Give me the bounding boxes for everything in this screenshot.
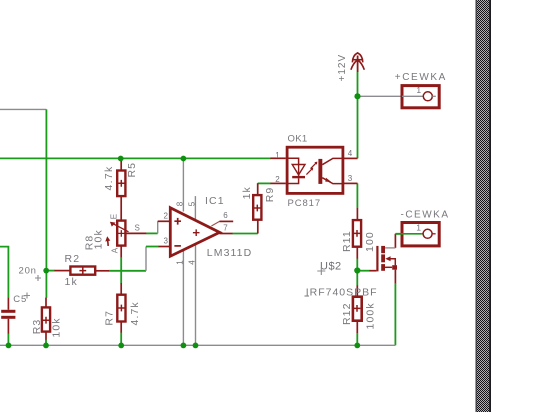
- junction node +12V: [354, 93, 360, 99]
- pin stub R9 bottom: [257, 220, 259, 234]
- wire junction to R3: [45, 271, 47, 298]
- pin stub OK1 pin3: [342, 182, 357, 184]
- origin cross C5: [24, 293, 30, 299]
- wire +12V node to +CEWKA pin (grey): [358, 95, 424, 97]
- wire grey stub top-left: [0, 108, 46, 110]
- svg-text:1: 1: [175, 260, 184, 265]
- wire MOSFET source to rail corner: [394, 283, 396, 345]
- svg-text:S: S: [135, 224, 140, 233]
- svg-text:6: 6: [223, 211, 228, 220]
- svg-text:OK1: OK1: [288, 133, 308, 144]
- junction node rail-C5: [6, 343, 12, 349]
- svg-text:LM311D: LM311D: [207, 247, 253, 259]
- potentiometer R8: [110, 221, 129, 246]
- wire R2 left: [46, 270, 54, 272]
- pin stub R11 top: [356, 208, 358, 220]
- svg-text:R5: R5: [126, 162, 138, 178]
- svg-text:IRF740SPBF: IRF740SPBF: [306, 286, 378, 298]
- resistor R5: [117, 171, 125, 197]
- junction node gate: [354, 267, 360, 273]
- svg-text:10k: 10k: [93, 229, 105, 249]
- resistor R11: [353, 220, 361, 247]
- wire pot bottom to R7: [120, 257, 122, 283]
- svg-text:PC817: PC817: [288, 198, 322, 209]
- wire drain to -CEWKA green over box: [395, 233, 421, 235]
- svg-text:R12: R12: [341, 302, 353, 325]
- wire R11 bottom to gate node: [356, 258, 358, 270]
- wire gate node to MOSFET gate: [357, 270, 369, 272]
- pin stub OK1 pin1: [270, 157, 285, 159]
- wire MOSFET drain to -CEWKA pin: [395, 233, 421, 235]
- wire R7 bottom to rail: [120, 332, 122, 345]
- wire gate node to R12: [356, 271, 358, 286]
- svg-text:R3: R3: [31, 319, 43, 335]
- pin stub R2 right: [96, 270, 110, 272]
- wire wiper riser to pin2 (grey): [157, 221, 159, 233]
- pin IC1 pin6 diagonal: [211, 221, 219, 226]
- wire IC1 pin1 to rail (grey): [182, 250, 184, 345]
- pin stub MOSFET gate: [369, 270, 376, 272]
- pin stub R3 bottom: [45, 332, 47, 340]
- pin stub R2 left: [54, 270, 70, 272]
- supply +12V symbol: [351, 53, 364, 72]
- svg-text:8: 8: [176, 201, 185, 206]
- svg-text:5: 5: [188, 201, 197, 206]
- pin stub OK1 pin2: [270, 182, 285, 184]
- pin stub R11 bottom: [356, 247, 358, 259]
- pin stub R7 top: [120, 283, 122, 295]
- svg-text:R9: R9: [264, 187, 276, 203]
- trimmer adjust arrow of R8: [107, 239, 110, 246]
- wire IC1 pin4 to rail (grey): [195, 244, 197, 345]
- wire left C5 branch: [0, 247, 8, 298]
- wire pin3 horizontal: [146, 246, 159, 248]
- optocoupler OK1 PC817: [287, 147, 343, 193]
- wire riser to pin3 (grey): [145, 247, 147, 271]
- wire IC1 pin8 supply (grey): [182, 159, 184, 212]
- svg-text:2: 2: [275, 175, 280, 184]
- pin stub IC1 pin7: [219, 233, 232, 235]
- svg-text:2: 2: [164, 212, 169, 221]
- pin stub R9 top: [257, 183, 259, 195]
- op-amp U1 comparator IC1 LM311D: [170, 208, 219, 257]
- wire +12V rail: [0, 157, 271, 159]
- resistor R7: [117, 295, 125, 322]
- resistor R3: [42, 307, 50, 331]
- svg-text:1k: 1k: [241, 186, 253, 199]
- svg-text:IC1: IC1: [205, 195, 225, 207]
- junction node rail-R3: [43, 343, 49, 349]
- svg-text:100: 100: [364, 231, 376, 252]
- scrollbar strip: [476, 0, 492, 412]
- junction node rail-R5 top: [118, 156, 124, 162]
- pin stub C5 top: [7, 298, 9, 310]
- origin cross 20n: [35, 275, 41, 281]
- svg-text:10k: 10k: [51, 317, 63, 337]
- connector -CEWKA: [402, 223, 439, 246]
- svg-text:7: 7: [223, 224, 228, 233]
- svg-text:20n: 20n: [19, 265, 37, 276]
- wire R3 bottom to rail: [45, 339, 47, 345]
- wire vertical net from grey corner to R2 junction: [45, 109, 47, 270]
- pin stub IC1 pin6: [220, 220, 234, 222]
- pin stub R3 top: [45, 298, 47, 308]
- svg-text:R2: R2: [65, 253, 81, 265]
- pin stub IC1 pin2: [158, 220, 171, 222]
- junction node rail-IC1 pin8: [181, 156, 187, 162]
- wire IC1 output to R9: [232, 233, 257, 235]
- junction node rail-R12: [354, 343, 360, 349]
- capacitor C5: [1, 310, 15, 319]
- junction node rail-IC1 pin1: [181, 343, 187, 349]
- ground rail (grey): [0, 344, 395, 346]
- wire R12 bottom to rail: [356, 333, 358, 346]
- pin stub R12 top: [356, 285, 358, 296]
- pin stub OK1 pin4: [342, 157, 357, 159]
- pin stub R12 bottom: [356, 321, 358, 333]
- svg-text:4: 4: [348, 149, 353, 158]
- origin cross U$2 value: [305, 295, 310, 297]
- svg-text:E: E: [110, 214, 119, 219]
- resistor R12: [353, 297, 362, 321]
- wire R2 right to IC1 pin3 riser: [109, 270, 146, 272]
- svg-text:4.7k: 4.7k: [129, 301, 141, 325]
- origin cross U$2: [317, 267, 325, 275]
- svg-text:3: 3: [164, 237, 169, 246]
- pin stub MOSFET drain riser: [394, 234, 396, 248]
- svg-text:R11: R11: [341, 230, 353, 252]
- svg-text:3: 3: [348, 174, 353, 183]
- wire OK1 pin4 to +12V node: [357, 96, 359, 158]
- pin stub C5 bottom: [7, 319, 9, 334]
- resistor R2: [70, 267, 95, 275]
- svg-text:100k: 100k: [365, 302, 377, 329]
- pin stub R7 bottom: [120, 322, 122, 333]
- wire R9 top to OK1 pin2: [258, 182, 271, 184]
- svg-text:+12V: +12V: [337, 54, 348, 82]
- svg-text:-CEWKA: -CEWKA: [401, 210, 450, 221]
- pin stub pot wiper: [125, 232, 146, 234]
- pin stub pot bottom: [120, 246, 122, 258]
- wire +12V node to supply arrow: [357, 72, 359, 97]
- svg-text:A: A: [110, 247, 119, 253]
- svg-text:1: 1: [416, 223, 421, 233]
- wire C5 bottom to rail: [7, 333, 9, 345]
- svg-text:4: 4: [187, 260, 196, 265]
- junction node rail-R7: [118, 343, 124, 349]
- pin stub R5 top: [120, 159, 122, 171]
- pin stub R5 to pot: [120, 196, 122, 220]
- connector +CEWKA: [402, 86, 439, 108]
- pin stub MOSFET source drop: [394, 270, 396, 284]
- resistor R9: [253, 195, 261, 220]
- transistor U$2 MOSFET IRF740: [377, 246, 397, 272]
- junction node rail-IC1 pin4: [193, 343, 199, 349]
- junction node R2-left: [43, 268, 49, 274]
- pin stub IC1 pin3: [159, 246, 171, 248]
- wire OK1 pin3 down to R11: [356, 183, 358, 208]
- wire IC1 pin5 stub (grey): [194, 196, 196, 221]
- svg-text:+CEWKA: +CEWKA: [395, 72, 447, 83]
- wire wiper S green: [146, 232, 158, 234]
- svg-text:1: 1: [416, 85, 421, 95]
- svg-text:R7: R7: [104, 310, 116, 326]
- svg-text:4.7k: 4.7k: [103, 165, 115, 190]
- svg-text:1: 1: [275, 151, 280, 160]
- svg-text:1k: 1k: [65, 276, 79, 288]
